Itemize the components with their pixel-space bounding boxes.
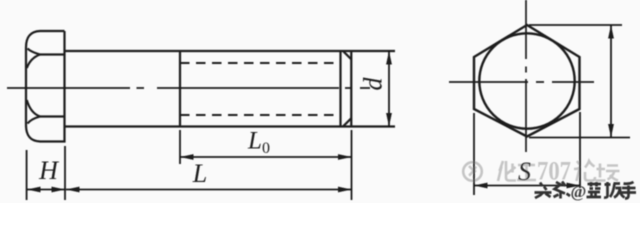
svg-text:d: d <box>359 77 388 91</box>
svg-text:@: @ <box>571 182 587 201</box>
svg-text:H: H <box>38 156 59 185</box>
svg-text:L: L <box>192 159 207 188</box>
svg-text:L0: L0 <box>247 128 270 158</box>
svg-text:S: S <box>518 157 531 186</box>
svg-text:707: 707 <box>537 157 571 186</box>
